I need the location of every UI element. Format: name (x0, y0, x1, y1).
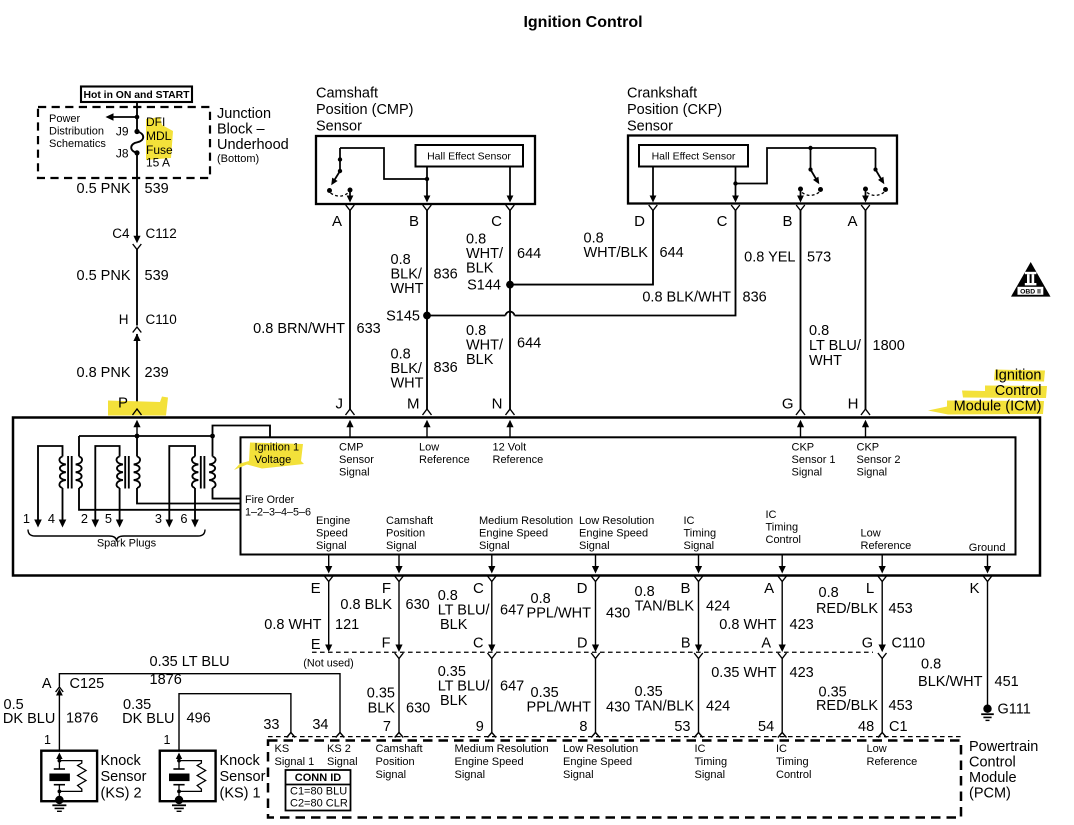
svg-text:Voltage: Voltage (255, 454, 292, 466)
svg-text:KS: KS (275, 743, 290, 755)
svg-text:424: 424 (706, 699, 730, 715)
CMP pin A output arrow (347, 190, 354, 203)
label: Knock Sensor (KS) 2 (101, 753, 147, 802)
label: 0.8 WHT/BLK 644 (lower) (466, 323, 541, 368)
svg-text:BLK: BLK (466, 352, 494, 368)
svg-text:A: A (847, 213, 857, 230)
svg-text:BLK: BLK (440, 617, 468, 633)
ignition coil T3 (cyl 3-6) (166, 436, 241, 528)
svg-text:Position (CMP): Position (CMP) (316, 102, 414, 118)
svg-text:Reference: Reference (861, 540, 912, 552)
terminal H of ICM (848, 396, 870, 416)
label: Ignition 1 Voltage (255, 442, 300, 467)
ICM interior arrow at terminal D (592, 555, 599, 574)
label: 0.8 BLK/WHT 451 (918, 657, 1019, 691)
CMP reluctor switch (327, 148, 353, 196)
svg-text:E: E (311, 637, 321, 653)
terminal N of ICM (492, 396, 515, 416)
svg-text:Signal: Signal (684, 540, 715, 552)
ICM bottom terminal E (311, 576, 333, 597)
label: Power Distribution Schematics (49, 113, 106, 150)
svg-text:K: K (969, 580, 979, 597)
svg-text:G111: G111 (998, 702, 1031, 718)
svg-text:15 A: 15 A (146, 156, 170, 170)
svg-text:Ignition Control: Ignition Control (523, 14, 642, 31)
svg-text:647: 647 (500, 679, 524, 695)
svg-text:OBD II: OBD II (1020, 289, 1041, 296)
svg-text:(PCM): (PCM) (969, 786, 1011, 802)
svg-text:A: A (764, 580, 774, 597)
wire 630 (C110 to PCM 7) (398, 659, 400, 733)
svg-text:1876: 1876 (66, 711, 98, 727)
svg-text:54: 54 (758, 719, 774, 735)
connector C110 label (892, 636, 926, 652)
svg-text:Timing: Timing (684, 528, 717, 540)
svg-text:0.35: 0.35 (367, 686, 395, 702)
ground G111 (981, 702, 1031, 721)
label: Engine Speed Signal (316, 515, 350, 552)
wire 633 (CMP A to ICM J) (349, 211, 351, 410)
label: KS 2 Signal (327, 743, 358, 768)
svg-text:Underhood: Underhood (217, 137, 289, 153)
pin J9 (116, 125, 129, 139)
label: 0.8 PNK 239 (77, 365, 169, 381)
svg-text:0.8: 0.8 (921, 657, 941, 673)
svg-text:Knock: Knock (101, 753, 142, 769)
svg-text:G: G (782, 396, 794, 413)
label: 0.8 BLK/WHT 836 (CKP C) (642, 290, 766, 306)
svg-text:J8: J8 (116, 147, 129, 161)
svg-text:239: 239 (145, 365, 169, 381)
ignition coil T1 (cyl 1-4) (34, 436, 240, 528)
ICM interior arrow at terminal B (695, 555, 702, 574)
wire 644 branch (CKP D to S144) (510, 211, 653, 285)
svg-text:N: N (492, 396, 503, 413)
svg-text:DK BLU: DK BLU (3, 711, 55, 727)
svg-text:9: 9 (476, 719, 484, 735)
svg-text:451: 451 (995, 674, 1019, 690)
label: Spark Plugs (97, 538, 157, 550)
svg-text:3: 3 (155, 511, 162, 526)
svg-text:Medium Resolution: Medium Resolution (479, 515, 573, 527)
svg-text:Signal 1: Signal 1 (275, 756, 315, 768)
svg-text:Fire Order: Fire Order (245, 494, 295, 506)
svg-text:1–2–3–4–5–6: 1–2–3–4–5–6 (245, 507, 311, 519)
terminal C (CKP) (717, 205, 740, 230)
label: 0.8 RED/BLK 453 (816, 585, 913, 617)
svg-text:C110: C110 (146, 312, 177, 327)
connector C110 terminal E (not used) (303, 637, 353, 670)
svg-text:0.8 PNK: 0.8 PNK (77, 365, 131, 381)
label: IC Timing Control (766, 509, 801, 546)
CKP reluctor switch 2 (863, 148, 888, 195)
PCM pin 53 (674, 719, 702, 738)
svg-text:Ground: Ground (969, 542, 1006, 554)
label: 0.8 BLK 630 (340, 597, 429, 613)
label: 0.5 PNK 539 (upper) (77, 181, 169, 197)
svg-text:453: 453 (889, 698, 913, 714)
svg-text:Engine Speed: Engine Speed (479, 528, 548, 540)
wire 453 (ICM L to C110) (879, 582, 886, 653)
svg-text:Signal: Signal (857, 467, 888, 479)
svg-text:539: 539 (145, 181, 169, 197)
svg-text:Reference: Reference (419, 454, 470, 466)
svg-text:Sensor 2: Sensor 2 (857, 454, 901, 466)
hall effect sensor box (CMP) (416, 145, 524, 167)
svg-text:Control: Control (995, 383, 1042, 399)
connector C110 terminal C (473, 636, 496, 659)
svg-text:D: D (577, 636, 587, 652)
hall effect sensor box (CKP) (639, 145, 748, 167)
label: 0.8 TAN/BLK 424 (635, 584, 731, 615)
wire 430 (ICM D to C110) (592, 582, 599, 653)
CONN ID box (286, 770, 352, 811)
svg-text:423: 423 (790, 665, 814, 681)
svg-text:BLK: BLK (368, 701, 396, 717)
svg-text:453: 453 (889, 601, 913, 617)
svg-text:J9: J9 (116, 125, 129, 139)
terminal J of ICM (336, 396, 355, 416)
svg-text:Hall Effect Sensor: Hall Effect Sensor (427, 151, 511, 163)
ICM interior arrow at terminal L (879, 555, 886, 574)
svg-text:1: 1 (44, 733, 51, 747)
wire 836 (CMP B to splice S145) (426, 211, 428, 316)
svg-text:Timing: Timing (695, 756, 728, 768)
svg-text:644: 644 (660, 245, 684, 261)
ICM interior arrow at terminal M (423, 420, 430, 438)
svg-text:(KS) 2: (KS) 2 (101, 786, 142, 802)
svg-text:KS 2: KS 2 (327, 743, 351, 755)
wire 423 (ICM A to C110) (779, 582, 786, 653)
svg-text:Control: Control (969, 755, 1016, 771)
label: CMP Sensor Signal (339, 442, 374, 479)
svg-text:Reference: Reference (867, 756, 918, 768)
label: 0.35 RED/BLK 453 (816, 685, 913, 715)
ICM bottom terminal K (969, 576, 991, 597)
terminal B (CKP) (782, 205, 804, 230)
svg-text:1800: 1800 (873, 338, 905, 354)
PCM pin 34 (312, 717, 344, 738)
connector C112 terminal C4 (112, 226, 177, 250)
svg-text:CKP: CKP (857, 442, 880, 454)
label: IC Timing Signal (684, 515, 717, 552)
svg-text:C: C (717, 213, 728, 230)
connector C125 terminal A (42, 676, 104, 696)
svg-text:J: J (336, 396, 344, 413)
svg-text:33: 33 (263, 717, 279, 733)
svg-text:Signal: Signal (339, 467, 370, 479)
label: 0.8 YEL 573 (744, 250, 831, 266)
connector C110 dashed line (312, 651, 873, 653)
CKP reluctor switch 1 (798, 148, 823, 195)
svg-text:Signal: Signal (695, 769, 726, 781)
label: Ground (ICM K) (969, 542, 1006, 554)
wire 1876 DK BLU (KS2 to C125) (58, 694, 60, 751)
svg-text:CONN ID: CONN ID (295, 772, 342, 784)
label: 0.8 WHT/BLK 644 (CKP D) (584, 231, 684, 262)
svg-text:LT BLU/: LT BLU/ (809, 338, 862, 354)
svg-text:Low Resolution: Low Resolution (563, 743, 638, 755)
label: Fire Order 1-2-3-4-5-6 (245, 494, 311, 519)
arrow to power distribution schematics (106, 113, 140, 121)
svg-text:Crankshaft: Crankshaft (627, 86, 697, 102)
svg-text:TAN/BLK: TAN/BLK (635, 699, 695, 715)
label: Low Reference (PCM) (867, 743, 918, 768)
svg-text:836: 836 (743, 290, 767, 306)
svg-text:B: B (681, 636, 691, 652)
svg-text:L: L (866, 580, 874, 597)
svg-text:644: 644 (517, 246, 541, 262)
svg-text:Medium Resolution: Medium Resolution (455, 743, 549, 755)
svg-text:(Bottom): (Bottom) (217, 153, 259, 165)
svg-text:WHT: WHT (391, 281, 424, 297)
svg-text:630: 630 (406, 597, 430, 613)
svg-text:Signal: Signal (579, 540, 610, 552)
svg-text:1: 1 (164, 733, 171, 747)
svg-text:423: 423 (790, 617, 814, 633)
svg-text:RED/BLK: RED/BLK (816, 698, 878, 714)
ICM P entry arrow (133, 420, 140, 436)
svg-text:Low Resolution: Low Resolution (579, 515, 654, 527)
ICM interior arrow at terminal H (862, 420, 869, 438)
svg-text:D: D (634, 213, 645, 230)
svg-text:BLK: BLK (440, 693, 468, 709)
svg-text:B: B (782, 213, 792, 230)
wire 1800 (CKP A to ICM H) (865, 211, 867, 410)
svg-text:C4: C4 (112, 226, 130, 241)
highlight at terminal P (108, 397, 168, 416)
wire: hot feed into junction block (136, 102, 138, 117)
svg-text:836: 836 (434, 360, 458, 376)
svg-text:E: E (311, 580, 321, 597)
wire 451 (ICM K to G111) (987, 582, 989, 706)
svg-text:F: F (382, 580, 391, 597)
wire 836 (S145 to ICM M) (426, 316, 428, 410)
label: Crankshaft Position (CKP) Sensor (627, 86, 722, 135)
svg-text:BLK/WHT: BLK/WHT (918, 674, 983, 690)
wire 424 (C110 to PCM 53) (698, 659, 700, 733)
svg-text:0.5 PNK: 0.5 PNK (77, 268, 131, 284)
svg-text:0.35 LT BLU: 0.35 LT BLU (150, 654, 230, 670)
svg-text:P: P (118, 395, 128, 412)
svg-text:IC: IC (684, 515, 695, 527)
highlight for ICM label (928, 370, 1047, 415)
ICM interior arrow at terminal A (779, 555, 786, 574)
label: CKP Sensor 2 Signal (857, 442, 901, 479)
terminal M of ICM (407, 396, 432, 416)
svg-text:53: 53 (674, 719, 690, 735)
ignition coil T2 (cyl 2-5) (92, 436, 241, 528)
label: Camshaft Position (CMP) Sensor (316, 86, 414, 135)
OBD II symbol (1011, 262, 1051, 297)
svg-text:Module: Module (969, 770, 1017, 786)
svg-text:Ignition: Ignition (995, 368, 1042, 384)
svg-text:Junction: Junction (217, 106, 271, 122)
wire 644 (CMP C to splice S144) (509, 211, 511, 285)
svg-text:633: 633 (357, 321, 381, 337)
svg-text:Signal: Signal (479, 540, 510, 552)
terminal P of ICM (118, 395, 142, 416)
svg-text:Control: Control (776, 769, 811, 781)
bus riser into inner box (213, 426, 271, 438)
ICM interior arrow at terminal C (488, 555, 495, 574)
wire 453 (C110 to PCM 48) (881, 659, 883, 733)
svg-text:7: 7 (383, 719, 391, 735)
svg-text:Sensor: Sensor (627, 119, 673, 135)
svg-text:539: 539 (145, 268, 169, 284)
svg-text:424: 424 (706, 599, 730, 615)
svg-text:BLK: BLK (466, 261, 494, 277)
ignition 1 voltage bus (79, 434, 215, 439)
ICM interior arrow at terminal F (395, 555, 402, 574)
svg-text:Module (ICM): Module (ICM) (954, 399, 1042, 415)
svg-text:M: M (407, 396, 420, 413)
CKP pin B output arrow (797, 189, 804, 203)
svg-text:A: A (332, 213, 342, 230)
svg-text:Position: Position (376, 756, 415, 768)
svg-text:2: 2 (81, 511, 88, 526)
svg-text:C125: C125 (70, 676, 105, 692)
PCM module dashed box (268, 741, 961, 818)
svg-text:1: 1 (23, 511, 30, 526)
label: Ignition Control Module (ICM) (954, 368, 1042, 415)
ICM bottom terminal L (866, 576, 887, 597)
svg-text:B: B (409, 213, 419, 230)
label: CKP Sensor 1 Signal (792, 442, 836, 479)
label: 0.8 LT BLU/WHT 1800 (809, 323, 905, 369)
svg-text:Camshaft: Camshaft (376, 743, 423, 755)
wire 423 (C110 to PCM 54) (781, 659, 783, 733)
label: Powertrain Control Module (PCM) (969, 739, 1038, 802)
label: 0.35 TAN/BLK 424 (635, 684, 731, 715)
label: 0.8 BRN/WHT 633 (253, 321, 381, 337)
highlight over MDL Fuse label (146, 117, 173, 160)
svg-text:Speed: Speed (316, 528, 348, 540)
PCM pin 7 (383, 719, 403, 738)
wire 630 (ICM F to C110) (395, 582, 402, 653)
fuse label: DFI MDL Fuse 15 A (146, 115, 173, 170)
svg-text:644: 644 (517, 336, 541, 352)
svg-text:0.5 PNK: 0.5 PNK (77, 181, 131, 197)
label: 0.8 WHT 423 (719, 617, 813, 633)
label: Camshaft Position Signal (386, 515, 433, 552)
svg-text:Signal: Signal (563, 769, 594, 781)
svg-text:0.8 WHT: 0.8 WHT (719, 617, 776, 633)
CKP sensor box (628, 136, 897, 204)
wire 836 branch (CKP C to S145) with hop over wire 644 (427, 211, 736, 316)
pin J8 (116, 147, 129, 161)
svg-text:PPL/WHT: PPL/WHT (527, 606, 592, 622)
PCM pin 48 connector C1 (858, 719, 907, 738)
ICM bottom terminal A (764, 576, 786, 597)
svg-text:S144: S144 (467, 278, 501, 294)
svg-text:647: 647 (500, 603, 524, 619)
svg-text:C2=80 CLR: C2=80 CLR (290, 798, 348, 810)
label: Low Resolution Engine Speed Signal (PCM) (563, 743, 638, 781)
wire 1876 LT BLU (C125 to PCM 34) (59, 674, 340, 733)
title label: Ignition Control (523, 14, 642, 31)
wire 424 (ICM B to C110) (695, 582, 702, 653)
svg-text:Timing: Timing (766, 522, 799, 534)
label: 0.35 LT BLU/BLK 647 (438, 664, 525, 709)
label: IC Timing Signal (PCM) (695, 743, 728, 781)
svg-text:TAN/BLK: TAN/BLK (635, 599, 695, 615)
svg-text:F: F (382, 636, 391, 652)
svg-text:Signal: Signal (316, 540, 347, 552)
label: 0.8 WHT 121 (264, 617, 359, 633)
svg-text:0.8 WHT: 0.8 WHT (264, 617, 321, 633)
label: Low Reference (ICM M) (419, 442, 470, 467)
label: Knock Sensor (KS) 1 (220, 753, 266, 802)
svg-text:CKP: CKP (792, 442, 815, 454)
svg-text:Timing: Timing (776, 756, 809, 768)
PCM connector dashed line (268, 736, 961, 738)
wire 644 (S144 to ICM N) (509, 285, 511, 409)
label: 0.8 BLK/WHT 836 (upper) (391, 252, 458, 297)
svg-text:C: C (491, 213, 502, 230)
svg-text:(Not used): (Not used) (303, 658, 353, 670)
svg-text:430: 430 (606, 700, 630, 716)
wire: J9 feed (136, 117, 138, 132)
spark plug cylinder numbers (23, 511, 188, 526)
svg-text:IC: IC (766, 509, 777, 521)
CMP internal wire (switch feed) (340, 148, 429, 181)
svg-text:5: 5 (105, 511, 112, 526)
svg-text:Hot in ON and START: Hot in ON and START (83, 90, 190, 101)
svg-text:573: 573 (807, 250, 831, 266)
svg-text:A: A (42, 676, 52, 692)
ICM interior arrow at terminal E (325, 555, 332, 574)
label: 0.5 DK BLU 1876 (3, 697, 98, 727)
svg-text:C1: C1 (889, 719, 908, 735)
PCM pin 54 (758, 719, 786, 738)
svg-text:Sensor: Sensor (101, 769, 147, 785)
svg-text:H: H (848, 396, 859, 413)
label: 0.35 PPL/WHT 430 (527, 685, 631, 716)
svg-text:Engine Speed: Engine Speed (455, 756, 524, 768)
svg-text:Position: Position (386, 528, 425, 540)
svg-text:Low: Low (419, 442, 439, 454)
connector C110 terminal A (761, 636, 786, 659)
svg-text:G: G (862, 636, 873, 652)
terminal G of ICM (782, 396, 805, 416)
svg-text:Signal: Signal (386, 540, 417, 552)
label: IC Timing Control (PCM) (776, 743, 811, 781)
ICM bottom terminal C (473, 576, 496, 597)
PCM pin 8 (579, 719, 599, 738)
connector C110 terminal G (PCM side) (862, 636, 887, 659)
CMP pin C wire (507, 167, 514, 203)
label: 12 Volt Reference (493, 442, 544, 467)
svg-text:Control: Control (766, 534, 801, 546)
svg-text:Powertrain: Powertrain (969, 739, 1038, 755)
svg-text:48: 48 (858, 719, 874, 735)
svg-text:Camshaft: Camshaft (316, 86, 378, 102)
PCM pin 33 (263, 717, 295, 738)
fuse MDL 15A symbol (131, 129, 143, 156)
svg-text:8: 8 (579, 719, 587, 735)
label: 0.8 BLK/WHT 836 (lower) (391, 347, 458, 392)
svg-text:Sensor: Sensor (339, 454, 374, 466)
knock sensor KS2 (41, 733, 97, 811)
wire 647 (ICM C to C110) (488, 582, 495, 653)
connector C110 terminal B (681, 636, 703, 659)
svg-text:Engine Speed: Engine Speed (579, 528, 648, 540)
svg-text:Reference: Reference (493, 454, 544, 466)
svg-text:0.8 BLK/WHT: 0.8 BLK/WHT (642, 290, 731, 306)
svg-text:630: 630 (406, 701, 430, 717)
svg-text:1876: 1876 (150, 672, 182, 688)
